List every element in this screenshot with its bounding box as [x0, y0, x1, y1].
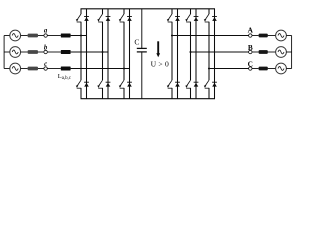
label C [248, 59, 253, 68]
filter box (source impedance) phase c [28, 67, 38, 71]
node b [44, 50, 47, 53]
wire phase b to left bridge [71, 51, 108, 53]
wire c3 [47, 68, 61, 70]
wire C3 [286, 68, 291, 70]
label B [248, 43, 253, 52]
IGBT S8 (right bridge upper, leg B) [185, 9, 190, 52]
inductor La [61, 34, 71, 38]
wire DC link bottom [141, 52, 143, 99]
junction dot phase a [80, 34, 82, 36]
IGBT S11 (right bridge lower, leg B) [185, 52, 190, 99]
wire DC link top [141, 9, 143, 49]
diode D11 (right bridge lower) [194, 52, 199, 99]
diode D8 (right bridge upper) [194, 9, 199, 52]
capacitor C [137, 48, 147, 52]
svg-text:a: a [44, 28, 48, 35]
diode D7 (right bridge upper) [175, 9, 180, 36]
AC source Va (grid phase a) [10, 30, 21, 41]
IGBT S6 (left bridge lower, leg c) [119, 69, 124, 99]
wire c1 [21, 68, 28, 70]
svg-text:B: B [248, 43, 253, 52]
wire B3 [286, 51, 291, 53]
wire A1 [252, 35, 259, 37]
wire phase B from right bridge [191, 51, 249, 53]
IGBT S2 (left bridge upper, leg b) [97, 9, 102, 52]
inductor Lb [61, 50, 71, 54]
junction dot phase c [123, 67, 125, 69]
wire a3 [47, 35, 61, 37]
wire source b stub [4, 51, 10, 53]
junction dot phase b [101, 51, 103, 53]
label A [248, 26, 254, 35]
svg-text:c: c [44, 61, 47, 68]
wire phase a to left bridge [71, 35, 87, 37]
AC source Vc (grid phase c) [10, 63, 21, 74]
svg-text:C: C [248, 59, 253, 68]
wire B2 [268, 51, 276, 53]
wire a2 [38, 35, 44, 37]
wire a1 [21, 35, 28, 37]
wire phase C from right bridge [209, 68, 249, 70]
wire b3 [47, 51, 61, 53]
junction dot phase B [189, 51, 191, 53]
wire phase c to left bridge [71, 68, 130, 70]
label La,b,c [58, 73, 72, 81]
IGBT S5 (left bridge lower, leg b) [97, 52, 102, 99]
wire right neutral bus [291, 36, 293, 69]
wire DC- bottom bus [81, 98, 216, 100]
node c [44, 67, 47, 70]
label b [44, 45, 48, 52]
diode D1 (left bridge upper) [84, 9, 89, 36]
machine winding box phase A [259, 34, 268, 38]
wire b2 [38, 51, 44, 53]
diode D4 (left bridge lower) [84, 36, 89, 99]
AC source EC (machine EMF C) [276, 63, 287, 74]
wire C2 [268, 68, 276, 70]
IGBT S10 (right bridge lower, leg A) [167, 36, 172, 99]
AC source EB (machine EMF B) [276, 47, 287, 58]
diode D3 (left bridge upper) [127, 9, 132, 69]
wire c2 [38, 68, 44, 70]
label C [134, 37, 139, 46]
IGBT S1 (left bridge upper, leg a) [76, 9, 81, 36]
arrow U (DC voltage) [156, 41, 160, 57]
wire DC+ top bus [81, 8, 216, 10]
svg-text:b: b [44, 45, 48, 52]
svg-text:C: C [134, 37, 139, 46]
diode D5 (left bridge lower) [106, 52, 111, 99]
filter box (source impedance) phase b [28, 50, 38, 54]
wire A3 [286, 35, 291, 37]
diode D6 (left bridge lower) [127, 69, 132, 99]
label U > 0 [151, 60, 169, 69]
IGBT S7 (right bridge upper, leg A) [167, 9, 172, 36]
diode D9 (right bridge upper) [212, 9, 217, 69]
AC source Vb (grid phase b) [10, 47, 21, 58]
IGBT S9 (right bridge upper, leg C) [204, 9, 209, 69]
wire phase A from right bridge [172, 35, 249, 37]
filter box (source impedance) phase a [28, 34, 38, 38]
wire B1 [252, 51, 259, 53]
label c [44, 61, 47, 68]
IGBT S12 (right bridge lower, leg C) [204, 69, 209, 99]
wire source c stub [4, 68, 10, 70]
svg-text:La,b,c: La,b,c [58, 73, 72, 81]
inductor Lc [61, 67, 71, 71]
diode D12 (right bridge lower) [212, 69, 217, 99]
node C [249, 67, 252, 70]
machine winding box phase C [259, 67, 268, 71]
node B [249, 50, 252, 53]
wire C1 [252, 68, 259, 70]
diode D10 (right bridge lower) [175, 36, 180, 99]
wire left neutral bus [3, 36, 5, 69]
svg-text:U > 0: U > 0 [151, 60, 169, 69]
IGBT S4 (left bridge lower, leg a) [76, 36, 81, 99]
machine winding box phase B [259, 50, 268, 54]
label a [44, 28, 48, 35]
AC source EA (machine EMF A) [276, 30, 287, 41]
junction dot phase C [208, 67, 210, 69]
wire b1 [21, 51, 28, 53]
junction dot phase A [171, 34, 173, 36]
node A [249, 34, 252, 37]
node a [44, 34, 47, 37]
IGBT S3 (left bridge upper, leg c) [119, 9, 124, 69]
wire A2 [268, 35, 276, 37]
svg-text:A: A [248, 26, 254, 35]
diode D2 (left bridge upper) [106, 9, 111, 52]
wire source a stub [4, 35, 10, 37]
